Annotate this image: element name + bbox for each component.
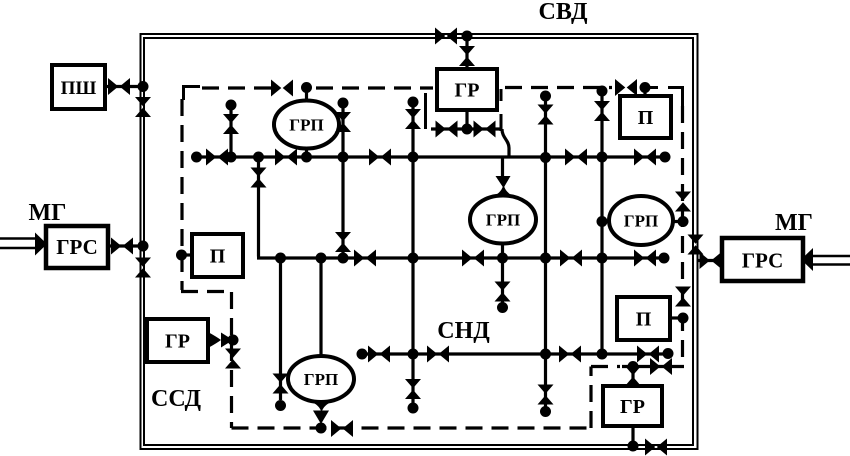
svg-text:ГРС: ГРС [56, 235, 98, 259]
svg-text:ГР: ГР [165, 331, 190, 353]
svg-text:П: П [210, 246, 226, 268]
svg-text:ПШ: ПШ [61, 78, 97, 99]
svg-text:ГРП: ГРП [289, 116, 323, 135]
svg-text:СВД: СВД [539, 0, 588, 25]
svg-text:П: П [638, 107, 654, 129]
svg-text:ГРП: ГРП [486, 211, 520, 230]
svg-text:СНД: СНД [437, 318, 490, 344]
svg-text:МГ: МГ [29, 200, 67, 226]
svg-text:ГР: ГР [620, 396, 645, 418]
svg-text:ГРС: ГРС [742, 249, 784, 273]
svg-text:МГ: МГ [775, 210, 813, 236]
svg-text:ГР: ГР [455, 80, 480, 102]
svg-text:ГРП: ГРП [624, 212, 658, 231]
svg-text:ССД: ССД [151, 386, 201, 412]
svg-text:ГРП: ГРП [304, 370, 338, 389]
svg-text:П: П [636, 309, 652, 331]
